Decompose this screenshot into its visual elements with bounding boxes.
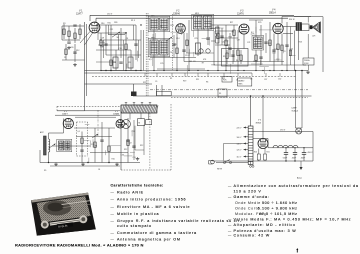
svg-text:—: — xyxy=(228,184,232,188)
svg-text:25: 25 xyxy=(64,57,66,59)
svg-text:Onde Corte: Onde Corte xyxy=(235,206,260,210)
svg-text:47K: 47K xyxy=(203,59,207,61)
svg-text:R22: R22 xyxy=(143,82,146,84)
svg-text:R21: R21 xyxy=(267,152,270,154)
svg-text:C21: C21 xyxy=(247,42,250,44)
svg-text:MF3: MF3 xyxy=(195,13,199,15)
svg-text:PRESA: PRESA xyxy=(304,59,310,62)
svg-text:Gruppo R.F. a induttanza varia: Gruppo R.F. a induttanza variabile reali… xyxy=(117,219,242,223)
svg-text:C36: C36 xyxy=(121,155,124,157)
svg-text:SCALA: SCALA xyxy=(292,110,299,113)
svg-text:Commutatore di gamma a tastier: Commutatore di gamma a tastiera xyxy=(117,231,197,235)
svg-text:R5: R5 xyxy=(129,62,131,64)
svg-text:R30 1K: R30 1K xyxy=(289,19,296,21)
svg-text:R15: R15 xyxy=(107,23,110,25)
svg-text:40MF: 40MF xyxy=(292,158,296,160)
svg-text:RADIORICEVITORE RADIOMARELLI: RADIORICEVITORE RADIOMARELLI Mod. « ALAD… xyxy=(15,243,144,248)
svg-text:110 a 220 V: 110 a 220 V xyxy=(234,190,262,194)
svg-text:4,7K: 4,7K xyxy=(251,33,256,35)
svg-text:Caratteristiche tecniche:: Caratteristiche tecniche: xyxy=(111,184,164,188)
svg-text:V 4: V 4 xyxy=(272,10,276,12)
svg-text:130 V: 130 V xyxy=(107,14,113,16)
svg-text:C4: C4 xyxy=(170,52,172,54)
svg-text:R29: R29 xyxy=(201,29,204,31)
svg-text:5.100 ÷ 9.800 kHz: 5.100 ÷ 9.800 kHz xyxy=(258,206,298,210)
svg-text:0,1: 0,1 xyxy=(78,131,81,133)
svg-text:R20: R20 xyxy=(254,152,257,154)
svg-text:—: — xyxy=(228,195,232,199)
svg-text:TENS.: TENS. xyxy=(238,84,243,86)
svg-text:R7: R7 xyxy=(202,63,204,65)
svg-text:—: — xyxy=(228,229,232,233)
svg-text:Mobile in plastica: Mobile in plastica xyxy=(117,212,160,216)
svg-text:V 2: V 2 xyxy=(176,11,180,13)
svg-text:C37: C37 xyxy=(237,40,240,42)
svg-text:R25: R25 xyxy=(229,37,232,39)
svg-text:—: — xyxy=(111,219,115,223)
svg-text:C34: C34 xyxy=(272,52,275,54)
svg-text:Altoparlante: MD - elittico: Altoparlante: MD - elittico xyxy=(234,223,296,227)
svg-text:V 5: V 5 xyxy=(258,120,262,122)
svg-text:160 V: 160 V xyxy=(237,137,243,139)
svg-text:C37: C37 xyxy=(264,79,267,81)
svg-text:R1 3: R1 3 xyxy=(131,20,135,22)
svg-text:—: — xyxy=(111,190,115,194)
svg-text:C13: C13 xyxy=(185,55,188,57)
svg-text:—: — xyxy=(111,231,115,235)
svg-text:R4: R4 xyxy=(114,62,116,64)
svg-text:Potenza d'uscita max: 3 W: Potenza d'uscita max: 3 W xyxy=(234,229,297,233)
svg-text:Consumo: 42 W: Consumo: 42 W xyxy=(234,234,271,238)
svg-text:—: — xyxy=(111,205,115,209)
svg-text:R20: R20 xyxy=(268,43,271,45)
svg-text:C2: C2 xyxy=(67,148,69,150)
svg-text:C38: C38 xyxy=(100,47,103,49)
svg-text:C25: C25 xyxy=(163,30,166,32)
svg-text:R5: R5 xyxy=(223,56,225,58)
svg-text:R5: R5 xyxy=(160,26,162,28)
svg-text:50MF: 50MF xyxy=(283,158,287,160)
svg-text:220 V: 220 V xyxy=(237,128,243,130)
svg-text:C9: C9 xyxy=(155,81,157,83)
svg-text:C14: C14 xyxy=(176,38,179,40)
svg-text:R23: R23 xyxy=(299,41,302,43)
svg-text:R27: R27 xyxy=(230,22,233,24)
svg-text:Alimentazione con autotrasform: Alimentazione con autotrasformatore per … xyxy=(234,184,359,188)
svg-text:125 V: 125 V xyxy=(237,150,243,152)
svg-text:R9: R9 xyxy=(174,44,176,46)
svg-text:—: — xyxy=(228,234,232,238)
svg-text:R24: R24 xyxy=(170,25,173,27)
svg-text:—: — xyxy=(111,238,115,242)
svg-text:12BA6: 12BA6 xyxy=(173,13,181,16)
svg-text:Radio ANIE: Radio ANIE xyxy=(117,190,144,194)
svg-text:CAMBIO: CAMBIO xyxy=(238,80,245,83)
svg-text:R10: R10 xyxy=(112,159,115,161)
svg-text:Ansa: Ansa xyxy=(297,177,303,180)
svg-text:40MF: 40MF xyxy=(301,158,305,160)
svg-text:—: — xyxy=(228,218,232,222)
svg-text:5K: 5K xyxy=(116,37,119,39)
svg-text:C13: C13 xyxy=(96,26,99,28)
svg-text:C25: C25 xyxy=(160,63,163,65)
svg-text:35EL4: 35EL4 xyxy=(269,13,276,15)
svg-text:R11: R11 xyxy=(196,79,199,81)
svg-text:C20: C20 xyxy=(225,40,228,42)
svg-text:R27: R27 xyxy=(212,65,215,67)
svg-text:R25: R25 xyxy=(258,22,261,24)
svg-text:S1: S1 xyxy=(219,93,221,95)
svg-text:12AT6: 12AT6 xyxy=(237,13,244,16)
svg-text:+190 V: +190 V xyxy=(307,152,314,154)
svg-text:Onde Medie: Onde Medie xyxy=(235,201,261,205)
svg-text:C14: C14 xyxy=(118,48,121,50)
svg-text:cuito stampato: cuito stampato xyxy=(117,224,152,228)
svg-text:C8: C8 xyxy=(126,38,128,40)
svg-text:R2: R2 xyxy=(232,32,234,34)
svg-text:V 3: V 3 xyxy=(240,11,244,13)
svg-text:FUS.: FUS. xyxy=(223,79,227,81)
svg-text:C25: C25 xyxy=(194,38,197,40)
svg-text:Valore Media F.: MA = 0.450 MH: Valore Media F.: MA = 0.450 MHz; MF = 10… xyxy=(234,218,352,222)
svg-text:V 1: V 1 xyxy=(79,11,83,13)
svg-text:R6: R6 xyxy=(206,82,208,84)
svg-text:M: M xyxy=(139,123,141,125)
svg-text:R1: R1 xyxy=(170,78,172,80)
svg-text:12AT7: 12AT7 xyxy=(76,13,83,16)
svg-text:R12: R12 xyxy=(124,149,127,151)
svg-text:MF1: MF1 xyxy=(151,16,155,18)
svg-text:50: 50 xyxy=(225,65,227,67)
svg-text:C20: C20 xyxy=(274,48,277,50)
svg-text:R3: R3 xyxy=(63,23,65,25)
svg-text:R19: R19 xyxy=(183,81,186,83)
svg-text:C21: C21 xyxy=(110,29,113,31)
svg-text:R26: R26 xyxy=(114,22,117,24)
svg-text:35W4: 35W4 xyxy=(256,122,262,124)
svg-text:500 ÷ 1.640 kHz: 500 ÷ 1.640 kHz xyxy=(262,201,298,205)
svg-text:0,5: 0,5 xyxy=(149,59,152,61)
svg-text:190 V: 190 V xyxy=(280,130,286,132)
svg-text:R9: R9 xyxy=(44,170,46,172)
svg-text:C22: C22 xyxy=(128,142,131,144)
svg-text:R8: R8 xyxy=(226,45,228,47)
svg-text:C7: C7 xyxy=(290,50,292,52)
svg-text:Anno inizio produzione: 1956: Anno inizio produzione: 1956 xyxy=(117,198,186,202)
svg-text:ANT: ANT xyxy=(40,131,44,134)
svg-text:RETE: RETE xyxy=(217,169,223,171)
svg-text:C32: C32 xyxy=(278,79,281,81)
svg-text:R26: R26 xyxy=(253,45,256,47)
svg-text:Ricevitore MA - MF a 6 valvole: Ricevitore MA - MF a 6 valvole xyxy=(117,205,190,209)
svg-text:C29: C29 xyxy=(101,38,104,40)
svg-text:—: — xyxy=(111,212,115,216)
svg-text:Antenna magnetica per OM: Antenna magnetica per OM xyxy=(117,238,181,242)
svg-text:Gamme d'onda:: Gamme d'onda: xyxy=(234,195,270,199)
svg-text:C10: C10 xyxy=(290,48,293,50)
svg-text:1M: 1M xyxy=(189,61,192,63)
svg-text:R16: R16 xyxy=(101,23,104,25)
svg-text:C34: C34 xyxy=(94,145,97,147)
svg-text:110 V: 110 V xyxy=(237,157,242,159)
svg-text:FONO: FONO xyxy=(304,63,309,65)
svg-text:87,5 ÷ 101,5 MHz: 87,5 ÷ 101,5 MHz xyxy=(259,212,297,216)
svg-text:A.P.: A.P. xyxy=(313,35,317,38)
svg-text:—: — xyxy=(228,223,232,227)
svg-text:1K: 1K xyxy=(98,169,101,171)
svg-text:—: — xyxy=(111,198,115,202)
svg-text:140 V: 140 V xyxy=(237,144,243,146)
svg-text:LAMP.: LAMP. xyxy=(292,107,298,110)
svg-text:R12: R12 xyxy=(140,145,143,147)
